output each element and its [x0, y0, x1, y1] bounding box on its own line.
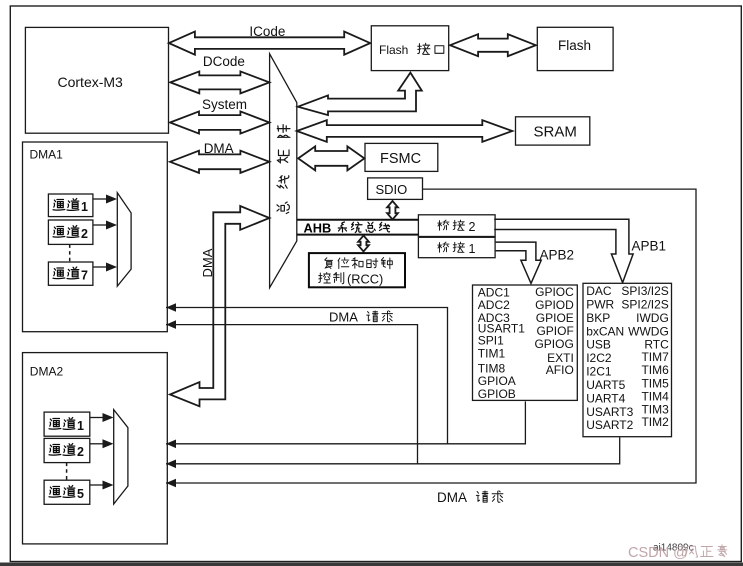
svg-text:GPIOE: GPIOE [536, 311, 574, 325]
svg-text:SPI3/I2S: SPI3/I2S [621, 284, 668, 298]
svg-text:2: 2 [81, 227, 88, 241]
box DMA2 [23, 353, 168, 544]
bus arrow matrix to FSMC [298, 146, 364, 170]
bus arrow System [170, 111, 269, 133]
dashed wire DMA2 channels [66, 463, 68, 481]
svg-text:GPIOG: GPIOG [534, 337, 573, 351]
svg-text:DMA: DMA [329, 310, 358, 325]
svg-text:FSMC: FSMC [380, 151, 421, 167]
channel bridge1 to APB2 arrow [496, 242, 542, 283]
svg-text:SDIO: SDIO [376, 182, 408, 197]
svg-text:ICode: ICode [249, 24, 285, 39]
svg-text:APB1: APB1 [632, 239, 667, 254]
svg-text:1: 1 [77, 419, 84, 433]
box RCC 复位和时钟控制 [309, 253, 405, 287]
frame bottom thick edge [0, 563, 743, 566]
DMA2 channel box 通道2 [44, 438, 90, 462]
DMA2 channel box 通道1 [44, 412, 90, 436]
label DMA 请求 (middle) [329, 310, 392, 325]
box FSMC [365, 143, 438, 171]
bus matrix trapezoid [270, 54, 297, 288]
svg-text:SPI2/I2S: SPI2/I2S [621, 297, 668, 311]
svg-text:Cortex-M3: Cortex-M3 [58, 74, 124, 90]
svg-text:DMA: DMA [204, 141, 234, 156]
box SRAM [516, 117, 590, 145]
box bridge2 桥接2 [418, 215, 495, 237]
svg-text:GPIOB: GPIOB [478, 387, 516, 401]
svg-text:GPIOC: GPIOC [535, 285, 574, 299]
svg-text:bxCAN: bxCAN [586, 325, 624, 339]
svg-text:USART3: USART3 [586, 405, 633, 419]
svg-text:TIM7: TIM7 [641, 350, 669, 364]
elbow arrow matrix to DMA2 (thick DMA path) [170, 206, 269, 406]
svg-text:AHB: AHB [304, 220, 332, 235]
box bridge1 桥接1 [418, 237, 495, 257]
svg-text:GPIOF: GPIOF [536, 324, 573, 338]
wire 通道1 to mux [93, 198, 106, 200]
svg-text:2: 2 [77, 445, 84, 459]
svg-text:GPIOD: GPIOD [535, 298, 574, 312]
channel bridge2 to APB1 arrow [494, 219, 633, 282]
box Flash interface (Flash 接口) [371, 26, 448, 71]
wire DMA request into DMA2 (from APB1 bottom) [166, 437, 620, 464]
DMA2 mux trapezoid [114, 410, 128, 504]
svg-text:TIM1: TIM1 [478, 346, 506, 360]
wire DMA2 通道5 to mux [90, 484, 103, 486]
svg-text:USB: USB [586, 338, 611, 352]
wire DMA request into DMA2 (from APB2 bottom) [166, 401, 525, 443]
wire 通道7 to mux [93, 266, 106, 268]
svg-text:Flash: Flash [379, 43, 408, 57]
svg-text:7: 7 [81, 268, 88, 282]
box DMA1 [23, 142, 168, 332]
svg-text:Flash: Flash [558, 38, 591, 53]
DMA1 channel box 通道2 [48, 220, 93, 244]
DMA1 channel box 通道1 [48, 194, 93, 217]
wire DMA request into DMA1 (from APB1) [166, 325, 418, 464]
svg-text:BKP: BKP [586, 311, 610, 325]
svg-text:TIM6: TIM6 [641, 363, 669, 377]
label DMA 请求 (bottom) [437, 490, 503, 505]
svg-text:AFIO: AFIO [546, 363, 574, 377]
svg-text:CSDN @: CSDN @ [628, 545, 688, 561]
svg-text:PWR: PWR [586, 297, 614, 311]
svg-text:TIM5: TIM5 [641, 377, 669, 391]
svg-text:UART5: UART5 [586, 378, 625, 392]
DMA2 channel box 通道5 [44, 480, 90, 504]
svg-text:2: 2 [469, 220, 476, 234]
AHB system bus lines [297, 220, 419, 235]
svg-text:System: System [202, 97, 247, 112]
svg-text:DMA2: DMA2 [30, 364, 64, 378]
watermark CSDN @风正豪 [628, 545, 727, 561]
svg-text:DMA: DMA [200, 248, 215, 277]
bus matrix label 总线矩阵 (rotated, reads bottom-to-top) [277, 125, 290, 214]
svg-text:DMA: DMA [437, 490, 467, 505]
svg-text:SRAM: SRAM [534, 124, 577, 141]
box SDIO [368, 178, 423, 200]
bus arrow matrix to SRAM [297, 120, 513, 142]
bus arrow DCode [170, 71, 269, 93]
arrowhead into DMA2 line 3 [166, 479, 176, 488]
wire SDIO to DMA2 (right side long path) + DMA request line 3 [166, 189, 696, 483]
svg-text:UART4: UART4 [586, 392, 625, 406]
svg-text:TIM4: TIM4 [641, 390, 669, 404]
box APB2 peripherals [473, 285, 578, 400]
svg-text:5: 5 [77, 487, 84, 501]
small vertical arrow AHB-RCC [358, 236, 369, 252]
svg-text:DAC: DAC [586, 284, 612, 298]
svg-text:APB2: APB2 [540, 248, 575, 263]
svg-text:I2C2: I2C2 [586, 351, 612, 365]
bus arrow ICode [169, 32, 370, 55]
svg-text:DCode: DCode [203, 54, 245, 69]
svg-text:WWDG: WWDG [628, 325, 669, 339]
wire 通道2 to mux [93, 224, 106, 226]
bus arrow DMA (DMA1 to matrix) [170, 151, 269, 173]
wire DMA2 通道1 to mux [90, 417, 103, 419]
dashed wire DMA1 channels [69, 244, 71, 262]
svg-text:TIM8: TIM8 [478, 361, 506, 375]
svg-text:1: 1 [81, 200, 88, 214]
label AHB系统总线 [304, 220, 390, 235]
svg-text:DMA1: DMA1 [30, 148, 64, 162]
DMA1 channel box 通道7 [48, 262, 93, 285]
svg-text:(RCC): (RCC) [347, 272, 383, 287]
svg-text:TIM2: TIM2 [641, 415, 669, 429]
wire DMA request into DMA1 (from APB2) [166, 308, 448, 444]
svg-text:IWDG: IWDG [636, 311, 669, 325]
svg-text:I2C1: I2C1 [586, 365, 612, 379]
box Flash [537, 27, 613, 70]
DMA1 mux trapezoid [117, 193, 131, 287]
svg-text:USART2: USART2 [586, 418, 633, 432]
svg-text:1: 1 [469, 242, 476, 256]
box APB1 peripherals [583, 283, 672, 436]
bus arrow Flash interface to Flash [450, 34, 536, 56]
box Cortex-M3 [25, 27, 168, 133]
elbow arrow matrix to Flash interface [298, 73, 422, 116]
small vertical arrow SDIO-AHB [387, 201, 398, 220]
wire DMA2 通道2 to mux [90, 443, 103, 445]
